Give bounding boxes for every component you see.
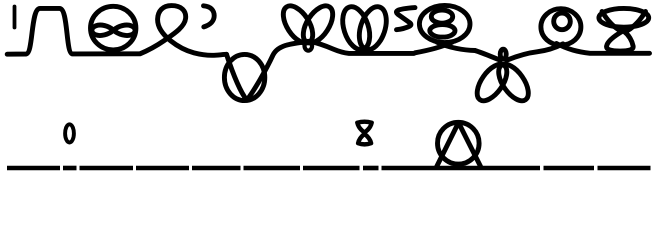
curl inner circle: [554, 13, 571, 30]
butterfly below line: entry sag stroke: [475, 51, 501, 61]
numeral 0 (second row): [65, 124, 74, 142]
apostrophe mark: [204, 6, 215, 27]
wire dash 1: [7, 166, 60, 171]
bow knot loop: [305, 41, 313, 51]
balloon tail left: [415, 42, 452, 53]
wire dash 5: [192, 166, 241, 171]
tulip below line: V strokes with entry and exit to bow: [227, 42, 306, 100]
8 inside balloon: top oval: [431, 10, 452, 23]
tulip above line: left egg loop: [338, 3, 375, 53]
butterfly right petal: [493, 59, 534, 105]
wire dash 10: [544, 166, 595, 171]
numeral 8 hourglass (second row) top triangle: [357, 122, 371, 133]
wire (butterfly exit rising into curl left tail): [507, 44, 564, 61]
hourglass skein: top ellipse: [599, 8, 649, 27]
butterfly left petal: [471, 59, 512, 105]
pretzel lambda left leg: [437, 123, 459, 167]
hourglass skein: inner right arc: [626, 12, 646, 32]
pretzel loop on second line: circle: [438, 122, 480, 164]
wire dash 2: [63, 166, 77, 171]
balloon tail right: [437, 42, 475, 50]
tulip above line: right egg loop: [354, 3, 391, 53]
bow right ear: [297, 1, 338, 48]
infinity inside circle: [92, 25, 135, 35]
numeral 8 hourglass (second row) bottom triangle: [358, 134, 371, 145]
8 inside balloon: bottom oval: [430, 25, 455, 38]
circle with infinity: outer circle: [91, 6, 136, 50]
pretzel lambda right leg: [459, 123, 481, 167]
wire dash 9 (runs under pretzel): [382, 166, 541, 171]
tulip below line: outer circle: [224, 54, 264, 100]
wire dash 7: [303, 166, 360, 171]
balloon with 8: outer circle: [419, 5, 470, 42]
curl right tail joining baseline to end: [557, 44, 650, 54]
butterfly small top loop: [500, 49, 506, 59]
second line dash segments: [7, 166, 651, 171]
wire dash 11: [598, 166, 651, 171]
S glyph: [396, 8, 415, 30]
hourglass skein: inner left arc: [602, 12, 622, 32]
wire (bow exit to baseline under upright tulip and S): [312, 42, 415, 54]
wire dash 3: [80, 166, 134, 171]
bow left ear: [277, 1, 318, 48]
wire dash 6: [244, 166, 301, 171]
tick mark (top-left vertical bar): [13, 7, 17, 28]
wire dash 8: [363, 166, 379, 171]
curl with inner circle: outer circle: [541, 9, 581, 45]
wire dash 4: [136, 166, 189, 171]
hourglass skein: bottom teardrop: [607, 31, 634, 51]
wire (top row: baseline with square bump then run to alpha loop): [7, 6, 226, 56]
